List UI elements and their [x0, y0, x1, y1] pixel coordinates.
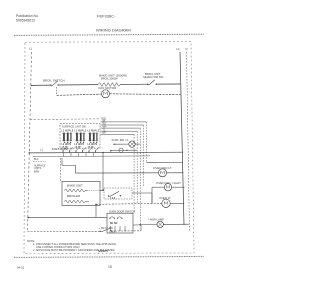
svg-text:19: 19	[108, 265, 112, 269]
svg-text:3203970: 3203970	[98, 250, 108, 253]
svg-text:BROIL 3000W: BROIL 3000W	[101, 76, 118, 80]
svg-text:FEF336C-: FEF336C-	[97, 14, 116, 19]
bracket vertical	[151, 187, 153, 203]
svg-text:NC NO: NC NO	[110, 223, 118, 225]
oven lamp rung dashed	[96, 202, 162, 205]
resistor: bake unit element	[98, 83, 120, 87]
svg-text:BAKE UNIT: BAKE UNIT	[67, 183, 83, 187]
drops from terminals to bus	[63, 151, 96, 153]
svg-text:04-01: 04-01	[17, 265, 25, 269]
junction at L1 rung1	[31, 85, 32, 86]
svg-text:L1 H1 P L2: L1 H1 P L2	[88, 131, 100, 133]
bus line 2	[33, 155, 150, 158]
switch: broil switch	[43, 78, 65, 86]
L1 rail (dashed)	[28, 52, 32, 232]
drops bus1 to bus2	[64, 153, 94, 157]
svg-text:P H1 P H1 P H1: P H1 P H1 P H1	[52, 149, 69, 151]
wire: rung2 dashed left	[57, 94, 102, 95]
resistor: broil element	[64, 200, 89, 203]
switch: oven/broil select	[143, 72, 164, 85]
surface unit switch box	[60, 124, 100, 149]
wire bundle from switch box to right	[101, 122, 147, 134]
svg-text:N: N	[186, 47, 188, 51]
wire: dashed drop to element box	[60, 158, 62, 181]
wire: selector to bracket	[132, 193, 152, 203]
console dashed line	[30, 118, 100, 121]
svg-text:OVEN LT: OVEN LT	[159, 196, 171, 200]
oven indicator light	[153, 166, 184, 177]
svg-text:OVEN IND LT: OVEN IND LT	[153, 166, 172, 170]
svg-text:5995349613: 5995349613	[16, 19, 35, 23]
svg-text:SURF. IND. LT.: SURF. IND. LT.	[112, 138, 130, 142]
rung to door switch box	[28, 216, 108, 218]
wire: rung1 from L1	[31, 84, 50, 86]
selector switch dashed box	[104, 188, 132, 199]
svg-text:BLK: BLK	[34, 158, 39, 161]
wire under indicator	[111, 149, 138, 151]
diagram dashed border	[24, 42, 194, 254]
N rail (dashed)	[187, 52, 190, 232]
svg-text:BK: BK	[103, 120, 107, 122]
lower small terminal circle	[119, 148, 123, 152]
wire: rung to oven indicator	[76, 172, 159, 174]
svg-text:WH: WH	[103, 127, 107, 129]
svg-text:BR: BR	[103, 133, 107, 135]
svg-text:+ DR LT SW: + DR LT SW	[99, 226, 114, 230]
svg-text:BROILER: BROILER	[67, 194, 81, 198]
junction right of element box	[102, 189, 104, 191]
oven element box	[62, 181, 100, 205]
surface indicator light	[112, 138, 141, 147]
resistor: bake element	[64, 189, 87, 192]
header rule (hatched fold line)	[14, 34, 204, 35]
note block	[27, 239, 117, 252]
terminal blades under box	[63, 147, 99, 150]
wire: rung1 element to switch2	[120, 83, 147, 85]
svg-text:OVEN IND. LIGHT: OVEN IND. LIGHT	[156, 181, 181, 185]
motor: fan motor circle	[102, 90, 110, 98]
surface switch unit 1	[62, 131, 74, 149]
svg-text:RD: RD	[103, 123, 107, 125]
L2 rail	[180, 52, 184, 225]
svg-text:SURFACE UNIT SW.: SURFACE UNIT SW.	[62, 124, 87, 128]
dashed rung: door light switch	[28, 230, 100, 232]
svg-text:FAN MOTOR: FAN MOTOR	[99, 86, 118, 90]
40W lamp	[148, 217, 189, 227]
surface switch unit 3	[88, 131, 100, 149]
drop to bus	[110, 150, 112, 152]
svg-text:WIRING DIAGRAM: WIRING DIAGRAM	[96, 27, 131, 32]
svg-text:BRN: BRN	[34, 171, 39, 174]
svg-text:1 2 3: 1 2 3	[110, 198, 116, 200]
svg-text:L1: L1	[40, 147, 43, 151]
svg-text:Publication No.: Publication No.	[16, 14, 39, 18]
left wire color labels	[34, 158, 46, 174]
bottom fold line	[14, 256, 204, 257]
wire: bundle corner to L2	[147, 161, 183, 163]
wire: box to lamp	[133, 224, 157, 227]
wire: rung2 dashed right	[110, 93, 182, 96]
mid indicator light	[152, 181, 185, 191]
svg-text:1A 2B: 1A 2B	[88, 145, 95, 148]
svg-text:L1 H1 P L2: L1 H1 P L2	[62, 131, 74, 133]
svg-text:BROIL SWITCH: BROIL SWITCH	[43, 78, 65, 82]
wire: drop from bus to element junction	[102, 153, 104, 191]
oven cavity lamp	[159, 196, 184, 207]
bus line 1	[29, 151, 184, 154]
svg-text:* 40W LAMP: * 40W LAMP	[148, 217, 164, 221]
bundle wire labels	[103, 120, 107, 134]
svg-text:L1 H1 P L2: L1 H1 P L2	[75, 131, 87, 133]
svg-text:SELECTOR SW: SELECTOR SW	[143, 75, 164, 79]
wire: rung1 to element	[59, 84, 98, 86]
svg-text:1A 2B: 1A 2B	[75, 145, 82, 148]
header: publication number	[16, 14, 39, 22]
door switch box	[107, 210, 135, 233]
wire: elbow from bus2 to rung y173	[62, 158, 76, 173]
wire: rung1 to L2	[157, 83, 181, 85]
svg-text:L1: L1	[29, 47, 33, 51]
bundle verticals	[134, 122, 146, 225]
surface switch unit 2	[75, 131, 87, 149]
svg-text:L2: L2	[177, 47, 181, 51]
wire: switch linkage drop	[56, 87, 58, 95]
